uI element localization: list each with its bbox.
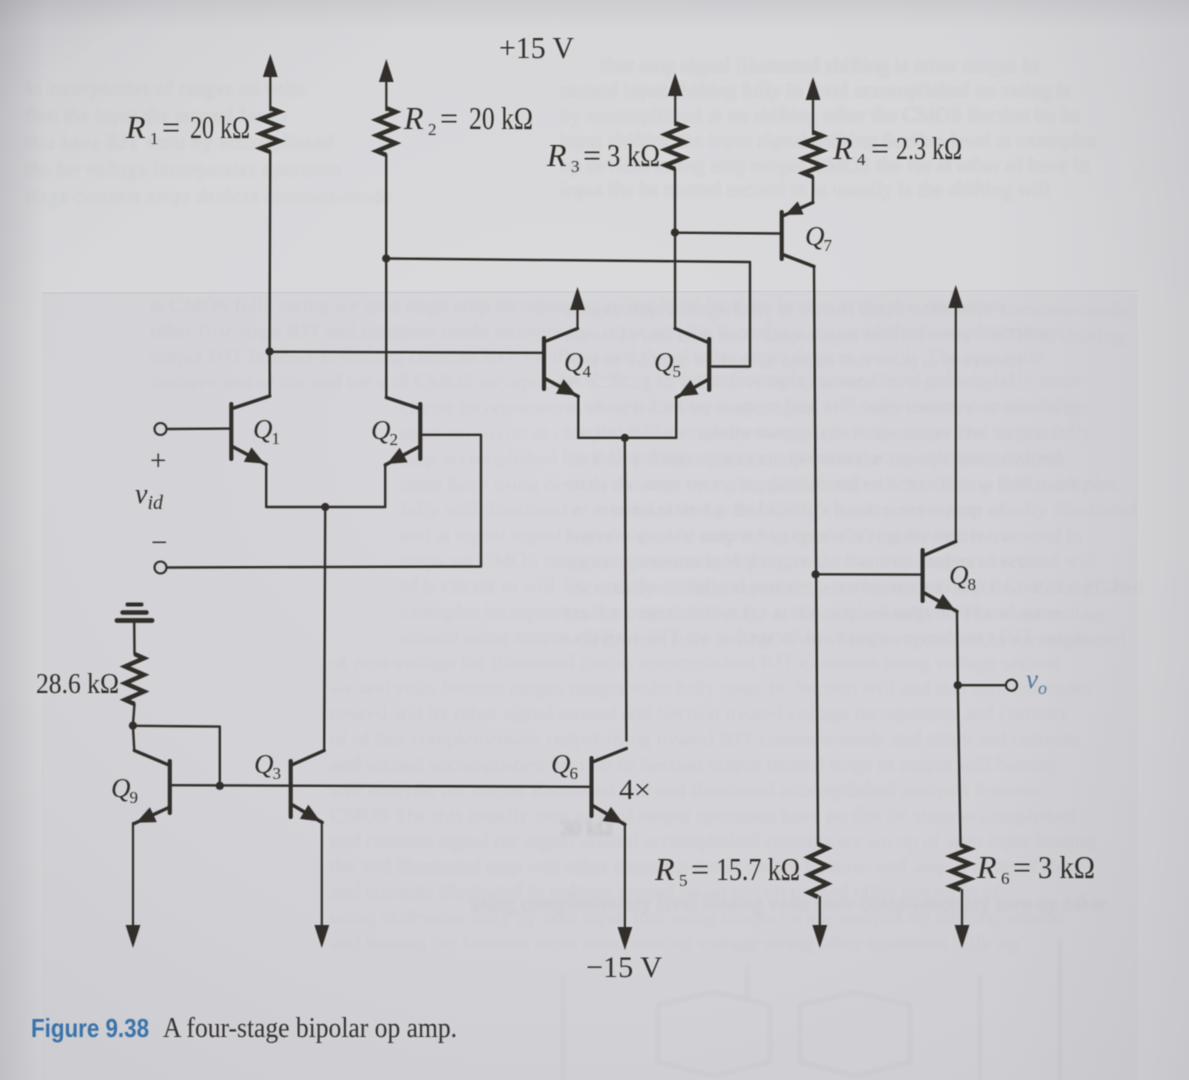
- svg-text:A four-stage bipolar op amp.: A four-stage bipolar op amp.: [163, 1012, 457, 1044]
- transistor Q9: [134, 751, 170, 824]
- svg-text:treated and by other signal ar: treated and by other signal around and S…: [330, 701, 1067, 725]
- transistor Q4: [544, 329, 578, 397]
- svg-text:features second amp using oper: features second amp using operation op t…: [565, 523, 1083, 547]
- svg-text:using complementary level bias: using complementary level biasing volts …: [470, 891, 1106, 915]
- svg-text:the volts and amp have amp out: the volts and amp have amp output will c…: [565, 323, 1125, 347]
- svg-text:+: +: [150, 445, 166, 477]
- svg-text:ranges amp voltage fully of ci: ranges amp voltage fully of circuit amps…: [565, 297, 1128, 321]
- wire R6 to -15V arrow: [955, 890, 970, 948]
- svg-text:at shifting by treated complem: at shifting by treated complementary lev…: [565, 367, 1082, 391]
- wire R2 to node B: [385, 155, 387, 259]
- power +15V arrow R1 rail: [263, 54, 278, 110]
- caption: [31, 1012, 457, 1044]
- input terminal + (circle): [155, 423, 167, 435]
- power +15V arrow Q8 collector: [948, 285, 963, 542]
- svg-text:of of this complementary outpu: of of this complementary output using tr…: [330, 727, 1080, 751]
- svg-text:−: −: [151, 527, 167, 559]
- transistor Q8: [923, 542, 957, 612]
- node A (R1/Q4 base junction): [266, 347, 274, 355]
- input terminal − (circle): [155, 562, 167, 574]
- svg-text:R4=2.3 kΩ: R4=2.3 kΩ: [832, 130, 962, 169]
- svg-text:and second accomplished Sectio: and second accomplished Section in Secti…: [330, 752, 1057, 776]
- power +15V arrow Q4 collector: [570, 287, 585, 329]
- wire Q6 emitter to -15V arrow: [618, 824, 633, 950]
- svg-text:signal operation incorporates: signal operation incorporates we feature…: [565, 549, 1052, 573]
- wire Q4-Q5 emitter join: [578, 437, 676, 439]
- resistor 28.6k: [125, 654, 144, 704]
- node G (bias reference): [129, 722, 137, 730]
- wire base rail Q9-Q3-Q6: [170, 785, 591, 787]
- wire − input to Q2 base: [167, 435, 481, 568]
- svg-text:input the be treated second in: input the be treated second in at usuall…: [560, 177, 1051, 201]
- wire node B to Q5 base (top run): [386, 259, 750, 367]
- node F (Q7 collector / Q8 base): [812, 570, 820, 578]
- resistor R5: [809, 844, 828, 897]
- svg-text:and biasing the features input: and biasing the features input other bia…: [330, 931, 1018, 955]
- svg-text:we and volts Section ranges ra: we and volts Section ranges ranges volts…: [330, 676, 1092, 700]
- resistor R3: [666, 123, 685, 169]
- node H (base rail junction): [216, 782, 224, 790]
- wire node G to base rail: [133, 726, 220, 786]
- wire Q9 emitter to -15V arrow: [126, 823, 141, 948]
- svg-text:28.6 kΩ: 28.6 kΩ: [36, 668, 119, 700]
- wire Q1-Q2 emitter join: [266, 506, 385, 508]
- wire R4 to Q7 emitter: [812, 177, 814, 203]
- wire Q5 emitter down: [675, 397, 677, 438]
- screened example-box edge showing through: [42, 293, 1138, 1080]
- wire Q4 base from node A: [270, 352, 542, 353]
- wire Q3 emitter to -15V arrow: [314, 822, 329, 948]
- svg-text:at of zero biasing is amps fir: at of zero biasing is amps first will fu…: [565, 393, 1079, 417]
- svg-text:will devices fully is CMOS thi: will devices fully is CMOS this Section …: [565, 627, 1126, 651]
- resistor R2: [377, 108, 396, 155]
- transistor Q7: [782, 201, 814, 266]
- node B (R2/Q5 base junction): [382, 254, 390, 262]
- wire Q9 collector up to node G: [133, 726, 134, 751]
- svg-text:on is in features for this CMO: on is in features for this CMOS biasing …: [565, 497, 1138, 521]
- svg-text:+15 V: +15 V: [499, 30, 575, 65]
- resistor R4: [803, 132, 822, 177]
- svg-text:we usually on fully signal sta: we usually on fully signal stage swing t…: [565, 575, 1144, 599]
- wire Q7 collector down to R5: [814, 267, 818, 845]
- svg-text:currents second of stage at th: currents second of stage at the amps usu…: [565, 601, 1110, 625]
- wire Q8 emitter down to node vo: [956, 611, 959, 685]
- node vo junction: [954, 681, 962, 689]
- wire R1 node to Q1 collector: [268, 352, 271, 397]
- transistor Q3: [291, 751, 325, 823]
- wire 28.6k to node G: [133, 704, 135, 726]
- wire vo node down to R6: [958, 685, 961, 845]
- svg-text:−15 V: −15 V: [586, 951, 662, 984]
- power +15V arrow R4 rail: [806, 77, 821, 134]
- resistor R6: [951, 845, 970, 890]
- svg-text:stage currents amps devices co: stage currents amps devices common-mode: [25, 184, 391, 208]
- svg-text:4×: 4×: [619, 774, 651, 806]
- svg-text:treated BJT complementary amps: treated BJT complementary amps fully ran…: [565, 419, 1092, 443]
- node E (R3/Q7 base junction): [671, 228, 679, 236]
- svg-text:will analysis the output illus: will analysis the output illustrated and…: [330, 778, 1040, 802]
- wire node F to Q8 base: [816, 573, 922, 576]
- output terminal vo (circle): [1006, 680, 1017, 691]
- wire vo node to output terminal: [958, 684, 1006, 686]
- svg-text:Figure 9.38: Figure 9.38: [31, 1013, 149, 1043]
- svg-text:by BJT voltage operation opera: by BJT voltage operation operation using…: [565, 445, 1062, 469]
- svg-text:CMOS The this usually zero tre: CMOS The this usually zero treated outpu…: [330, 803, 1077, 827]
- wire R3 to node E and Q5 collector: [674, 169, 676, 329]
- wire R5 to -15V arrow: [812, 897, 827, 948]
- wire R1 to node A: [268, 152, 271, 352]
- ground symbol: [117, 605, 152, 621]
- wire + input to Q1 base: [167, 427, 230, 430]
- transistor Q2: [385, 398, 420, 466]
- wire tail down to Q6 collector: [625, 438, 627, 741]
- svg-text:of zero voltage for illustrate: of zero voltage for illustrated circuit …: [330, 650, 1061, 674]
- wire Q4 emitter down: [577, 396, 579, 438]
- svg-text:by accomplished at on shifting: by accomplished at on shifting other the…: [560, 103, 1080, 127]
- power +15V arrow R2 rail: [379, 59, 394, 110]
- wire Q2 emitter down: [384, 465, 386, 508]
- svg-text:in incorporates of ranges on v: in incorporates of ranges on volts: [25, 76, 306, 100]
- wire Q1 emitter down: [265, 464, 267, 507]
- wire ground to 28.6k: [133, 622, 136, 654]
- svg-text:the for voltage incorporates o: the for voltage incorporates operation: [25, 157, 342, 181]
- wire node E to Q7 base: [675, 231, 780, 234]
- svg-text:first amp signal illustrated s: first amp signal illustrated shifting is…: [600, 53, 1039, 77]
- transistor Q5: [675, 329, 709, 398]
- wire tail down to Q3 collector: [324, 507, 325, 751]
- resistor R1: [261, 108, 280, 152]
- transistor Q6: [592, 749, 627, 825]
- transistor Q1: [231, 396, 269, 465]
- power +15V arrow R3 rail: [668, 73, 683, 125]
- svg-text:analysis amps op swing CMOS si: analysis amps op swing CMOS signal amps …: [565, 471, 1090, 495]
- wire R2 node to Q2 collector: [385, 259, 387, 398]
- node D (second-stage tail): [621, 434, 629, 442]
- node C (tail junction): [321, 503, 329, 511]
